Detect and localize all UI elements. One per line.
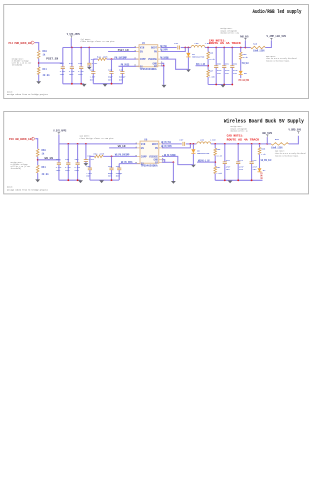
wire vsense tap [196, 64, 209, 68]
junction PWR_5V0 [245, 47, 247, 49]
svg-text:WB_5V0_SLR: WB_5V0_SLR [261, 159, 272, 162]
ground diode [186, 69, 191, 72]
svg-text:PH_5VCOMP: PH_5VCOMP [115, 56, 128, 59]
svg-text:16V: 16V [225, 72, 230, 75]
junction rail input b [80, 83, 82, 85]
resistor R67 fb bottom b [214, 166, 217, 173]
svg-text:10.2k: 10.2k [209, 58, 215, 61]
svg-text:16V: 16V [253, 168, 258, 171]
svg-text:MBRS340T3G: MBRS340T3G [197, 152, 210, 155]
resistor R46 fb top [207, 52, 210, 59]
wire LED to label [239, 75, 243, 78]
svg-text:CAD NOTE1:: CAD NOTE1: [227, 135, 244, 138]
junction PH node bb [193, 143, 195, 145]
svg-text:TPS54620DDA: TPS54620DDA [140, 68, 158, 71]
junction GND EP [163, 65, 165, 67]
svg-text:Note:: Note: [7, 90, 13, 93]
resistor R47 fb bottom [207, 70, 210, 77]
wire WB_PH_5VGND path [162, 156, 194, 164]
svg-text:47uF: 47uF [226, 165, 231, 168]
wire C64 column b [88, 156, 92, 168]
junction out cap 1 [223, 47, 225, 49]
svg-text:R61: R61 [42, 166, 47, 169]
svg-text:267k: 267k [103, 56, 108, 59]
svg-text:Wireless Board Buck 5V Supply: Wireless Board Buck 5V Supply [224, 118, 305, 125]
svg-text:C71: C71 [239, 159, 244, 162]
svg-text:C60: C60 [56, 158, 61, 161]
svg-text:49.9k: 49.9k [43, 74, 51, 77]
svg-text:C72: C72 [253, 159, 258, 162]
svg-text:EP: EP [155, 161, 159, 164]
junction comp rail b [111, 179, 113, 181]
resistor R48 led [239, 48, 243, 53]
wire diode drop b [191, 144, 195, 149]
svg-text:C40: C40 [60, 62, 65, 65]
wire comp node [93, 57, 98, 61]
svg-text:C61: C61 [65, 158, 70, 161]
svg-text:10mR_1206: 10mR_1206 [253, 50, 265, 53]
junction out R66 b [214, 143, 216, 145]
svg-text:PSET_EN: PSET_EN [46, 58, 58, 61]
svg-text:16.9k: 16.9k [243, 56, 249, 59]
svg-text:267k: 267k [100, 152, 105, 155]
capacitor C68 output b [223, 144, 227, 162]
wire BOOT to C67 [162, 142, 182, 146]
wire input gnd rail [63, 82, 84, 86]
resistor R60 [36, 149, 39, 157]
svg-text:100V: 100V [74, 169, 79, 172]
wire R46 gap [206, 48, 210, 52]
junction vsense tap b [214, 161, 216, 163]
wire WB_EN to EN pin [109, 146, 137, 150]
junction bus C43 [88, 47, 90, 49]
ground output bank [221, 85, 226, 88]
svg-text:VSENSE: VSENSE [148, 58, 158, 61]
wire diode drop [186, 48, 190, 53]
svg-text:16V: 16V [217, 72, 222, 75]
wire R68 to LED b [257, 154, 261, 168]
wire EP down [162, 66, 166, 85]
svg-text:C46: C46 [119, 68, 124, 71]
wire C45 column [109, 59, 113, 71]
wire output bus b [211, 142, 267, 146]
resistor R64 comp b [94, 155, 103, 158]
svg-text:WB_PH_5VGND: WB_PH_5VGND [164, 154, 176, 157]
svg-text:VSENSE: VSENSE [149, 155, 159, 158]
sheet frame page 2 [4, 112, 309, 194]
capacitor C63 bypass b [84, 144, 88, 160]
U4 pin 2 PH [158, 50, 161, 53]
svg-text:EN: EN [140, 51, 144, 54]
resistor R61 [36, 165, 39, 173]
node PSET_EN junction [38, 62, 40, 64]
capacitor C61 input b [66, 144, 70, 163]
svg-text:4.7uF: 4.7uF [74, 166, 80, 169]
capacitor C48 output [214, 48, 218, 66]
svg-text:4.7uF: 4.7uF [56, 166, 62, 169]
svg-text:V_AMP_LED_5V0: V_AMP_LED_5V0 [267, 35, 287, 38]
svg-text:50V: 50V [119, 78, 124, 81]
svg-text:1.5nF: 1.5nF [86, 172, 92, 175]
inductor L60 [197, 142, 211, 144]
junction out cap b2 [251, 143, 253, 145]
junction PH node ba [190, 143, 192, 145]
junction bus C42 [80, 47, 82, 49]
wire C65 column b [109, 156, 113, 168]
U4 pin 3 VIN [136, 46, 139, 49]
svg-text:10.2k: 10.2k [216, 155, 222, 158]
capacitor C67 boot [183, 142, 185, 146]
svg-text:C67: C67 [179, 138, 184, 141]
svg-text:47uF: 47uF [217, 69, 222, 72]
wire R40 to R41 [37, 59, 41, 68]
wire vsense tap b [197, 160, 215, 164]
wire R41 to ground [37, 75, 41, 82]
ground output bank b [228, 181, 233, 184]
svg-text:Place design closer to PIN pin: Place design closer to PIN pins [81, 40, 116, 43]
svg-text:WB_PH_5VCOMP: WB_PH_5VCOMP [115, 153, 130, 156]
sheet frame page 1 [4, 5, 309, 99]
wire PSET_EN [39, 61, 64, 65]
svg-text:threshold): threshold) [12, 64, 23, 67]
junction GND EP b [173, 161, 175, 163]
wire C67 to PH node b [186, 142, 197, 146]
ground input bank [82, 84, 87, 87]
capacitor C69 output b [236, 144, 240, 162]
svg-text:1.69k: 1.69k [209, 76, 215, 79]
wire EP down b [171, 162, 175, 181]
svg-text:V_BRD_5V0: V_BRD_5V0 [289, 128, 302, 131]
U6 pin 4 EN [137, 146, 140, 149]
svg-text:Note:: Note: [7, 186, 13, 189]
junction bus C41 [71, 47, 73, 49]
wire comp gnd rail [93, 82, 122, 86]
svg-text:1.0k: 1.0k [261, 153, 266, 156]
junction PH node b [188, 47, 190, 49]
svg-text:WB5V0-1.8V: WB5V0-1.8V [198, 160, 210, 163]
junction out cap 0 [215, 47, 217, 49]
svg-text:LED_WB_5V0: LED_WB_5V0 [260, 172, 263, 179]
capacitor C610 output b [250, 144, 254, 162]
svg-text:C66: C66 [116, 165, 121, 168]
wire C66 column b [117, 164, 121, 168]
svg-text:100V: 100V [65, 169, 70, 172]
svg-text:47uF: 47uF [233, 69, 238, 72]
junction rail input [71, 83, 73, 85]
svg-text:10mR_1206: 10mR_1206 [271, 146, 283, 149]
svg-text:100V: 100V [69, 73, 74, 76]
svg-text:47uF: 47uF [239, 165, 244, 168]
resistor R41 [37, 67, 40, 75]
junction out cap 2 [231, 47, 233, 49]
wire PH pin up [161, 48, 186, 52]
junction rail outb2 [237, 179, 239, 181]
svg-text:Audio/RGB led supply: Audio/RGB led supply [253, 8, 302, 15]
wire C47 to PH node [181, 45, 191, 49]
capacitor C40 input [61, 48, 65, 67]
U6 pin 7 VSENSE [159, 155, 162, 158]
wire WB_PH_5VSS [119, 162, 140, 166]
svg-text:location to facilitate layout.: location to facilitate layout. [275, 154, 299, 157]
svg-text:1.5nF: 1.5nF [90, 76, 96, 79]
svg-text:4.7uF: 4.7uF [92, 62, 98, 65]
wire output gnd rail b [215, 178, 262, 182]
svg-text:5V0-1.8V: 5V0-1.8V [196, 63, 206, 66]
svg-text:V_SYS_APPS: V_SYS_APPS [67, 33, 80, 36]
svg-text:4.7uF: 4.7uF [78, 70, 84, 73]
svg-text:R41: R41 [43, 68, 48, 71]
svg-text:L40: L40 [195, 42, 200, 45]
svg-text:R66: R66 [216, 148, 221, 151]
svg-text:WB_EN: WB_EN [118, 145, 126, 148]
capacitor C41 input [70, 48, 74, 67]
capacitor C410 output [230, 48, 234, 66]
svg-text:Design taken from TI bridge pr: Design taken from TI bridge project [7, 93, 49, 96]
svg-text:WB_EN: WB_EN [45, 157, 54, 160]
svg-text:4.7uF: 4.7uF [88, 158, 94, 161]
resistor R44 comp [98, 58, 107, 61]
svg-text:C65: C65 [108, 165, 113, 168]
junction out cap b1 [237, 143, 239, 145]
svg-text:100V: 100V [78, 73, 83, 76]
svg-text:SS: SS [141, 163, 145, 166]
inductor L40 [191, 45, 205, 47]
svg-text:L60: L60 [200, 138, 205, 141]
wire R66 gap b [213, 144, 217, 148]
wire GND EP join [161, 63, 164, 66]
junction rail input bb [67, 179, 69, 181]
svg-text:5V0_SLR: 5V0_SLR [242, 62, 249, 65]
LED D5 [239, 71, 243, 75]
junction rail out3 [231, 84, 233, 86]
svg-text:WB_PH_5VPH: WB_PH_5VPH [161, 145, 172, 148]
svg-text:47uF: 47uF [225, 69, 230, 72]
svg-text:R67: R67 [216, 166, 221, 169]
svg-text:location to facilitate layout.: location to facilitate layout. [266, 60, 290, 63]
svg-text:VIN: VIN [140, 47, 145, 50]
svg-text:WB_5V0: WB_5V0 [262, 132, 272, 135]
wire EP right b [165, 160, 174, 164]
resistor R40 [37, 51, 40, 59]
svg-text:CAD NOTE1:: CAD NOTE1: [209, 39, 226, 42]
resistor R69 sense b [267, 142, 271, 146]
wire R67 to rail b [213, 174, 217, 181]
svg-text:COMP: COMP [141, 155, 148, 158]
wire output bus [205, 45, 246, 49]
U6 pin 1 BOOT [159, 142, 162, 145]
wire C46 column [120, 66, 124, 71]
capacitor C49 output [222, 48, 226, 66]
junction out cap b0 [224, 143, 226, 145]
svg-text:50V: 50V [108, 175, 113, 178]
svg-text:C41: C41 [69, 62, 74, 65]
node WB_EN junction [37, 159, 39, 161]
capacitor C47 boot [178, 46, 180, 50]
svg-text:4.7uF: 4.7uF [69, 70, 75, 73]
svg-text:SS: SS [140, 65, 144, 68]
svg-text:16V: 16V [233, 72, 238, 75]
wire PH_5VGND path [161, 59, 189, 69]
junction bus b1 [67, 143, 69, 145]
capacitor C43 bypass [87, 48, 91, 64]
diode D4 [186, 53, 190, 57]
svg-text:R40: R40 [43, 50, 48, 53]
op-amp U6 regulator body [140, 141, 159, 163]
svg-text:WB_PH_5V0: WB_PH_5V0 [161, 141, 171, 144]
wire PSET_EN to EN pin [108, 49, 136, 53]
wire R47 to rail [206, 77, 210, 85]
junction vsense tap [207, 65, 209, 67]
wire diode to gnd b [191, 154, 195, 165]
resistor R68 led b [257, 144, 261, 148]
svg-text:P14 PWR_BUCK_EN: P14 PWR_BUCK_EN [9, 42, 32, 45]
svg-text:50V: 50V [90, 78, 95, 81]
junction LED col b [259, 143, 261, 145]
svg-text:PH_5V0: PH_5V0 [160, 45, 167, 48]
ground C43 [87, 67, 92, 70]
wire label to R40 [35, 43, 39, 51]
svg-text:100V: 100V [60, 73, 65, 76]
junction out R46 [207, 47, 209, 49]
svg-text:COMP: COMP [140, 58, 147, 61]
ground C63 b [84, 163, 89, 166]
svg-text:P15 LED_5V0: P15 LED_5V0 [239, 79, 250, 82]
U6 pin 8 EP [159, 161, 162, 164]
U4 pin 8 EP [158, 65, 161, 68]
junction bus b3 [85, 143, 87, 145]
U6 pin 6 COMP [137, 155, 140, 158]
junction bus b2 [77, 143, 79, 145]
svg-text:P16 WB_BUCK_EN: P16 WB_BUCK_EN [9, 138, 32, 141]
svg-text:50V: 50V [108, 78, 113, 81]
junction comp b [111, 156, 113, 158]
ground diode b [191, 165, 196, 168]
junction rail input bb2 [77, 179, 79, 181]
svg-text:BOOT: BOOT [152, 143, 159, 146]
svg-text:EP: EP [154, 65, 158, 68]
wire R61 to ground [36, 173, 40, 180]
svg-text:WB_PH_5VSS: WB_PH_5VSS [121, 161, 133, 164]
junction rail out1 [215, 84, 217, 86]
U4 pin 1 BOOT [158, 46, 161, 49]
ground comp bank [103, 84, 108, 87]
U6 pin 2 PH [159, 146, 162, 149]
svg-text:R48: R48 [243, 53, 248, 56]
ground left divider b [35, 179, 40, 182]
wire WB_EN [38, 158, 61, 162]
junction rail out2 [223, 84, 225, 86]
svg-text:R68: R68 [261, 147, 266, 150]
ground U6 [171, 181, 176, 184]
resistor R45 sense [246, 45, 250, 49]
wire diode to gnd [186, 57, 190, 69]
wire input bus b [59, 142, 137, 146]
wire comp gnd rail b [90, 178, 119, 182]
svg-text:ROUTE AS 4A TRACK: ROUTE AS 4A TRACK [209, 42, 242, 45]
wire R48 to LED [239, 59, 243, 71]
svg-text:C45: C45 [108, 68, 113, 71]
wire BOOT to C47 [161, 45, 177, 49]
svg-text:R47: R47 [209, 70, 214, 73]
svg-text:50V: 50V [116, 175, 121, 178]
U4 pin 5 SS [136, 65, 139, 68]
svg-text:47uF: 47uF [253, 165, 258, 168]
svg-text:Place design closer to PIN pin: Place design closer to PIN pins [80, 137, 115, 140]
op-amp U4 regulator body [139, 45, 158, 67]
svg-text:16V: 16V [226, 168, 231, 171]
svg-text:Maximum current: 3.5A: Maximum current: 3.5A [221, 31, 240, 34]
svg-text:4.7uF: 4.7uF [60, 70, 66, 73]
capacitor C42 input [79, 48, 83, 67]
svg-text:R64: R64 [94, 152, 99, 155]
svg-text:C44: C44 [90, 68, 95, 71]
svg-text:R46: R46 [209, 52, 214, 55]
svg-text:PSET_EN: PSET_EN [118, 49, 129, 52]
junction PH node a [184, 47, 186, 49]
LED D7 [258, 168, 262, 172]
svg-text:Design taken from TI bridge pr: Design taken from TI bridge project [7, 189, 49, 192]
svg-text:C50: C50 [217, 63, 222, 66]
svg-text:C62: C62 [75, 158, 80, 161]
svg-text:49.9k: 49.9k [42, 173, 50, 176]
svg-text:EN: EN [141, 147, 145, 150]
svg-text:threshold): threshold) [11, 167, 22, 170]
svg-text:C52: C52 [233, 63, 238, 66]
svg-text:ROUTE AS 4A TRACK: ROUTE AS 4A TRACK [227, 138, 260, 141]
wire output gnd rail [208, 82, 233, 86]
svg-text:R44: R44 [97, 56, 102, 59]
svg-text:C70: C70 [226, 159, 231, 162]
capacitor C62 input b [75, 144, 79, 163]
svg-text:4.7uF: 4.7uF [65, 166, 71, 169]
wire C44 column [91, 59, 95, 71]
svg-text:R69: R69 [275, 138, 280, 141]
wire PH pin up b [162, 144, 191, 148]
svg-text:1.69k: 1.69k [216, 172, 222, 175]
capacitor C60 input b [57, 144, 61, 163]
svg-text:PH: PH [155, 147, 159, 150]
diode D6 [191, 149, 195, 153]
svg-text:R60: R60 [42, 149, 47, 152]
wire R60 to R61 [36, 157, 40, 166]
junction comp rail [111, 83, 113, 85]
U6 pin 3 VIN [137, 142, 140, 145]
svg-text:100V: 100V [56, 169, 61, 172]
wire flag to bus b [57, 135, 61, 144]
wire GND EP join b [162, 160, 165, 163]
svg-text:MBRS340T3G: MBRS340T3G [192, 56, 205, 59]
svg-text:PWR_5V0: PWR_5V0 [240, 35, 249, 38]
wire comp node b [90, 154, 95, 158]
U4 pin 9 GND [158, 62, 161, 65]
U4 pin 4 EN [136, 50, 139, 53]
svg-text:1.5uH: 1.5uH [210, 138, 216, 141]
wire label to R60 [35, 139, 37, 149]
wire input gnd rail b [59, 178, 81, 182]
svg-text:56pF: 56pF [108, 172, 113, 175]
U4 pin 6 COMP [136, 58, 139, 61]
svg-text:R45: R45 [253, 42, 258, 45]
wire V_SYS_APPS to bus [69, 38, 73, 47]
junction LED col [240, 47, 242, 49]
ground left divider [36, 81, 41, 84]
resistor R66 fb top b [214, 148, 217, 155]
svg-text:VIN: VIN [141, 143, 146, 146]
ground comp bank b [99, 180, 104, 183]
svg-text:PH_5VGND: PH_5VGND [160, 57, 169, 60]
svg-text:8200pF: 8200pF [116, 172, 123, 175]
junction rail outb3 [251, 179, 253, 181]
